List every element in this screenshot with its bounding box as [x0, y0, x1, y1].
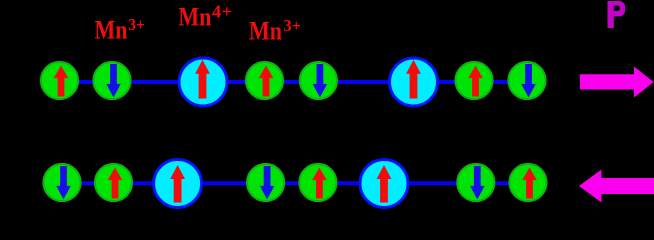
svg-text:Mn: Mn — [95, 16, 128, 45]
svg-text:3+: 3+ — [284, 16, 302, 35]
svg-text:Mn: Mn — [249, 17, 282, 46]
svg-text:Mn: Mn — [178, 3, 211, 32]
svg-text:4+: 4+ — [212, 1, 233, 21]
svg-text:3+: 3+ — [128, 15, 145, 34]
